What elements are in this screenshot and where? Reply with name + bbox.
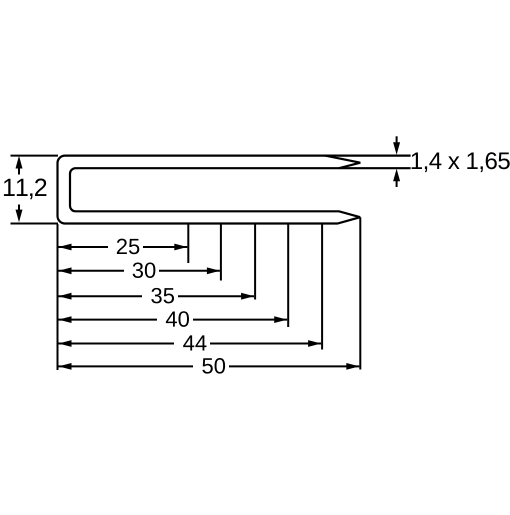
arrowhead 1,4 down [393,142,400,155]
arrowhead 30 right [207,267,220,274]
extension line 35 [254,224,256,300]
dim 1,4x1,65 lower arrow shaft [396,181,398,187]
extension line top left (11,2) [11,155,59,157]
arrowhead 1,4 up [393,169,400,182]
dim line 50 right [229,365,359,367]
dim line 25 left [59,246,109,248]
staple inner contour [70,168,411,217]
dim 1,4x1,65 upper arrow shaft [396,136,398,143]
label 11,2 [4,179,46,200]
extension line 25 [187,224,189,263]
arrowhead 44 left [59,340,72,347]
arrowhead 50 right [346,363,359,370]
arrowhead 11,2 up [16,156,23,169]
dim line 44 right [210,343,321,345]
dim line 30 right [159,270,220,272]
top leg chisel point [325,156,360,169]
extension line 30 [220,224,222,281]
arrowhead 25 right [174,244,187,251]
label 1,4 x 1,65 [412,152,510,172]
dim line 40 right [193,319,287,321]
dim 11,2 vertical shaft upper [18,168,20,175]
extension line 50 from tip [359,217,361,369]
dim 11,2 vertical shaft lower [18,205,20,211]
arrowhead 30 left [59,267,72,274]
dim line 30 left [59,270,125,272]
staple outer contour [58,156,411,224]
label 30 [133,262,156,278]
extension line 40 [287,224,289,327]
dim line 40 left [59,319,158,321]
dim line 35 left [59,295,143,297]
label 50 [202,358,225,374]
dim line 44 left [59,343,175,345]
dim line 50 left [59,365,194,367]
label 44 [183,335,206,350]
arrowhead 35 right [241,293,254,300]
extension line left vertical [57,224,59,370]
label 35 [151,288,174,304]
arrowhead 40 left [59,316,72,323]
arrowhead 50 left [59,363,72,370]
arrowhead 11,2 down [16,210,23,223]
extension line bottom left (11,2) [11,223,59,225]
arrowhead 40 right [274,316,287,323]
label 25 [117,239,139,255]
extension line 44 [321,224,323,350]
arrowhead 25 left [59,244,72,251]
dim line 35 right [178,295,254,297]
arrowhead 35 left [59,293,72,300]
arrowhead 44 right [308,340,321,347]
label 40 [166,311,189,327]
dim line 25 right [143,246,187,248]
